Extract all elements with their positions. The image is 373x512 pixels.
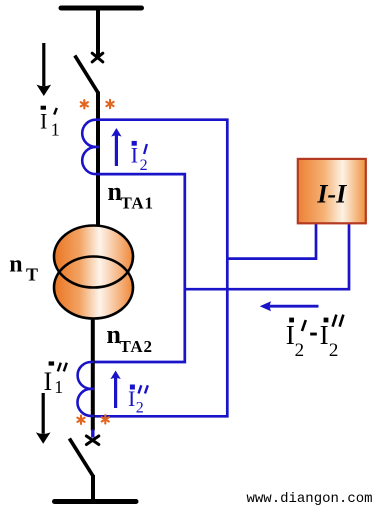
svg-text:n: n <box>9 251 22 277</box>
arrow I1' (primary current, down) <box>37 43 52 96</box>
svg-text:www.diangon.com: www.diangon.com <box>247 491 373 507</box>
breaker QF2 cross mark <box>86 436 98 445</box>
wire: breaker to transformer primary <box>96 92 100 226</box>
arrow I1'' (secondary side load current, down) <box>36 393 51 444</box>
transformer n_T winding 1 (outline) <box>54 226 133 288</box>
svg-text:2: 2 <box>140 157 148 174</box>
label n_T <box>9 251 38 284</box>
wire: CT1 lower terminal to node V2, down to CT2 top <box>93 174 185 362</box>
polarity mark * (bottom CT, right) <box>102 415 109 423</box>
wire: relay left lead to node V1 <box>227 224 316 259</box>
CT n_TA1 secondary winding <box>82 120 99 174</box>
svg-text:I: I <box>40 108 47 133</box>
svg-text:T: T <box>26 264 38 284</box>
transformer n_T winding 2 (fill) <box>54 257 133 319</box>
CT n_TA2 secondary winding <box>77 362 94 416</box>
polarity mark * (bottom CT, left) <box>77 416 84 424</box>
svg-text:2: 2 <box>136 400 144 417</box>
wire: transformer secondary down to breaker QF2 <box>91 318 95 431</box>
label I1'' <box>44 361 67 397</box>
svg-text:I: I <box>286 320 295 350</box>
svg-text:TA2: TA2 <box>120 337 153 356</box>
svg-text:2: 2 <box>295 340 305 361</box>
label I2' <box>131 141 148 174</box>
wire stub (blue) above QF2 cross <box>91 430 94 438</box>
wire: relay right lead to node V2 <box>185 224 349 290</box>
arrow I2' (CT1 secondary current, up) <box>111 128 121 166</box>
svg-text:I: I <box>44 367 53 396</box>
breaker QF1 blade <box>75 56 98 94</box>
svg-text:I: I <box>320 320 329 350</box>
label n_TA2 <box>107 320 153 356</box>
arrow I2'' (CT2 secondary current, up) <box>110 371 120 409</box>
svg-text:2: 2 <box>329 340 339 361</box>
busbar top <box>61 6 142 11</box>
wire: CT1 dotted terminal to node V1, down to CT2 wire <box>93 120 228 417</box>
arrow differential current (left) <box>260 301 319 311</box>
svg-text:I-I: I-I <box>316 179 347 208</box>
breaker QF2 blade <box>69 439 93 477</box>
svg-text:I: I <box>128 386 135 411</box>
transformer n_T winding 1 (fill) <box>54 226 133 288</box>
svg-text:1: 1 <box>54 377 63 397</box>
wire: busbar to breaker QF1 <box>96 8 100 56</box>
polarity mark * (top CT, right) <box>106 100 113 108</box>
label I1' <box>40 106 60 140</box>
svg-text:I: I <box>131 143 138 168</box>
wire: breaker QF2 to busbar bottom <box>91 475 95 501</box>
relay I-I box <box>298 159 366 223</box>
svg-text:TA1: TA1 <box>121 194 154 213</box>
busbar bottom <box>55 499 137 504</box>
label n_TA1 <box>108 177 154 212</box>
transformer n_T winding 2 (outline) <box>54 257 133 319</box>
svg-text:1: 1 <box>51 119 60 139</box>
label I2'' <box>128 385 148 417</box>
label I2' - I2'' (differential) <box>286 315 344 361</box>
breaker QF1 cross mark <box>92 53 103 62</box>
polarity mark * (top CT, left) <box>81 100 88 108</box>
